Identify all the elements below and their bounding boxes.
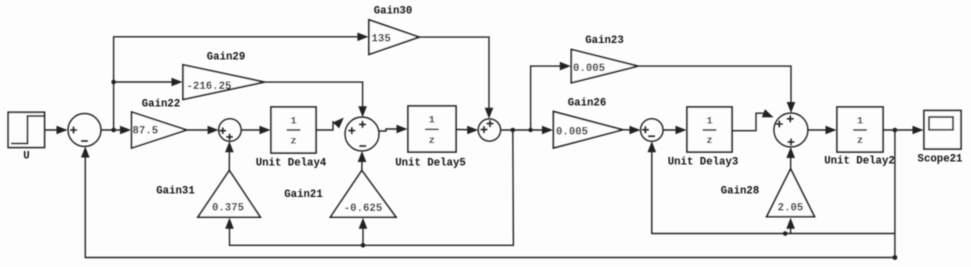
junction node on bus at Gain28 xyxy=(783,231,788,236)
wire feedback from output down xyxy=(894,130,896,258)
wire Gain21 to sum S3 bottom xyxy=(358,151,367,171)
svg-text:Gain26: Gain26 xyxy=(568,98,606,110)
svg-text:0.005: 0.005 xyxy=(573,63,605,75)
unit delay Unit Delay2 xyxy=(824,107,895,168)
wire Gain29 to sum S3 top xyxy=(264,82,367,117)
junction node on bus at Gain21 xyxy=(361,243,366,248)
svg-text:Scope21: Scope21 xyxy=(918,154,963,166)
wire bottom feedback to sum S1 xyxy=(81,147,895,258)
svg-text:Gain29: Gain29 xyxy=(207,52,245,64)
wire sum S3 to Unit Delay5 xyxy=(379,125,408,134)
sum S3 xyxy=(345,117,379,151)
gain Gain28 xyxy=(721,169,815,217)
wire Gain30 to sum S4 top xyxy=(419,37,493,119)
junction node sum S4 output xyxy=(511,128,516,133)
svg-text:Gain28: Gain28 xyxy=(721,186,759,198)
wire Gain26 to sum S5 xyxy=(623,126,641,135)
svg-text:-216.25: -216.25 xyxy=(187,81,232,93)
wire feedback sum S4 down to bus xyxy=(225,130,513,245)
svg-text:0.375: 0.375 xyxy=(212,203,244,215)
svg-text:1: 1 xyxy=(706,116,712,128)
svg-text:Unit Delay4: Unit Delay4 xyxy=(256,158,327,170)
svg-text:Unit Delay3: Unit Delay3 xyxy=(668,157,739,169)
wire sum S5 to Unit Delay3 xyxy=(663,126,686,135)
svg-text:Gain22: Gain22 xyxy=(142,99,180,111)
wire bus up to gain Gain21 xyxy=(359,218,368,246)
gain Gain26 xyxy=(553,98,622,149)
wire sum S6 to Unit Delay2 xyxy=(808,126,837,135)
gain Gain29 xyxy=(183,52,264,100)
sum S6 xyxy=(774,113,808,147)
junction node at x=113.6 xyxy=(111,128,116,133)
sum S5 xyxy=(641,119,664,142)
svg-text:Gain21: Gain21 xyxy=(284,189,322,201)
svg-text:Gain31: Gain31 xyxy=(156,186,194,198)
gain Gain30 xyxy=(369,6,419,55)
svg-text:135: 135 xyxy=(372,34,391,46)
wire Unit Delay4 to sum S3 xyxy=(316,115,347,130)
svg-text:1: 1 xyxy=(290,116,296,128)
wire branch to gain Gain29 xyxy=(114,78,183,87)
wire Unit Delay2 to Scope21 xyxy=(883,126,924,135)
sum S2 xyxy=(219,119,242,142)
junction node Gain23 branch xyxy=(528,128,532,132)
gain Gain21 xyxy=(284,171,396,218)
wire bus up to gain Gain28 xyxy=(786,218,795,234)
wire Gain23 to sum S6 top xyxy=(638,66,795,113)
wire Gain22 to sum S2 xyxy=(187,126,219,135)
svg-text:z: z xyxy=(290,136,296,148)
wire branch up from junction to Gain30 xyxy=(114,33,369,131)
wire sum S2 to Unit Delay4 xyxy=(241,126,270,135)
svg-text:0.005: 0.005 xyxy=(556,127,588,139)
svg-text:Gain23: Gain23 xyxy=(585,35,623,47)
scope Scope21 xyxy=(918,111,963,166)
unit delay Unit Delay4 xyxy=(256,107,327,170)
svg-text:1: 1 xyxy=(429,115,435,127)
svg-text:z: z xyxy=(706,135,712,147)
gain Gain23 xyxy=(571,35,638,83)
sum S4 xyxy=(478,119,500,141)
wire Gain31 to sum S2 bottom xyxy=(225,141,234,170)
wire step to sum S1 xyxy=(45,126,68,135)
step source U xyxy=(8,112,44,162)
junction node at (113.6,82) xyxy=(111,80,116,85)
junction node Unit Delay2 output xyxy=(893,128,898,133)
svg-text:z: z xyxy=(857,135,863,147)
wire sum S4 to gain Gain26 xyxy=(501,126,553,135)
wire branch up to gain Gain23 xyxy=(531,62,571,130)
svg-text:1: 1 xyxy=(857,116,863,128)
svg-text:Unit Delay5: Unit Delay5 xyxy=(395,158,466,170)
wire Unit Delay5 to sum S4 xyxy=(456,126,478,135)
wire Gain28 to sum S6 bottom xyxy=(786,147,795,169)
svg-text:2.05: 2.05 xyxy=(778,203,804,215)
wire bus to sum S5 bottom xyxy=(648,141,895,233)
svg-text:U: U xyxy=(23,151,29,163)
svg-text:-0.625: -0.625 xyxy=(344,203,382,215)
gain Gain22 xyxy=(132,99,187,149)
sum S1 xyxy=(68,114,101,147)
junction node bottom right xyxy=(893,255,898,260)
wire Unit Delay3 to sum S6 xyxy=(732,109,775,130)
unit delay Unit Delay3 xyxy=(668,107,739,169)
wire sum S1 to gain Gain22 xyxy=(101,126,131,135)
unit delay Unit Delay5 xyxy=(395,106,466,170)
svg-text:Unit Delay2: Unit Delay2 xyxy=(824,156,895,168)
svg-text:87.5: 87.5 xyxy=(133,126,159,138)
svg-text:Gain30: Gain30 xyxy=(374,6,412,18)
gain Gain31 xyxy=(156,171,260,218)
svg-text:z: z xyxy=(429,135,435,147)
